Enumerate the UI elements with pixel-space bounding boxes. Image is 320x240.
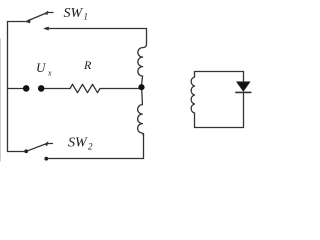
wire terminal to resistor [45, 88, 71, 90]
wire right loop bottom [195, 127, 244, 129]
svg-text:1: 1 [84, 12, 89, 22]
svg-text:SW: SW [64, 6, 84, 21]
wire right loop left upper [194, 72, 196, 78]
resistor R [70, 84, 100, 92]
wire right loop right upper [243, 72, 245, 82]
wire bottom horizontal [47, 158, 144, 160]
node junction [138, 84, 144, 90]
terminal dot left of Ux [23, 85, 30, 92]
wire middle horizontal left [8, 88, 24, 90]
svg-text:2: 2 [88, 142, 93, 152]
inductor L1 upper [138, 44, 147, 84]
switch SW2 [24, 142, 52, 161]
wire middle branch top [146, 29, 148, 45]
wire right loop left lower [194, 113, 196, 128]
wire SW1 to top-right corner [49, 28, 147, 30]
wire right loop right lower [243, 93, 245, 128]
terminal dot right of Ux [38, 85, 45, 92]
wire resistor to junction [100, 88, 139, 90]
diode VD [236, 82, 251, 93]
svg-text:x: x [47, 69, 52, 78]
wire SW2 left [8, 151, 25, 153]
scan edge artifact left [0, 39, 2, 161]
wire top-left horizontal [8, 21, 26, 23]
svg-text:R: R [83, 58, 92, 72]
wire middle branch bottom [143, 134, 145, 159]
wire right loop top [195, 71, 244, 73]
inductor L2 lower [138, 91, 144, 137]
switch SW1 [25, 11, 53, 30]
svg-text:SW: SW [68, 136, 88, 151]
wire left vertical [7, 22, 9, 152]
inductor L3 right loop [191, 77, 194, 113]
svg-text:U: U [36, 60, 47, 75]
